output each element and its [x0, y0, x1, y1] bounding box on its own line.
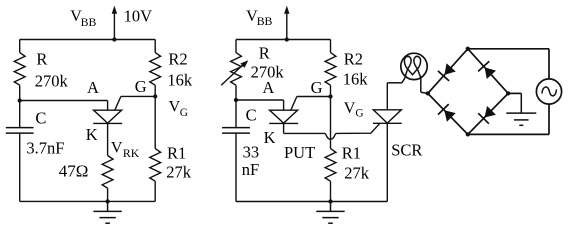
svg-text:33: 33 [243, 143, 260, 162]
svg-text:27k: 27k [344, 164, 370, 183]
svg-text:PUT: PUT [284, 143, 315, 162]
svg-text:R: R [259, 43, 270, 62]
svg-text:V: V [111, 139, 123, 156]
svg-text:K: K [86, 125, 98, 144]
svg-text:RK: RK [123, 146, 140, 160]
svg-text:V: V [344, 100, 356, 117]
svg-text:R2: R2 [168, 49, 187, 68]
svg-text:R2: R2 [344, 49, 363, 68]
svg-text:10V: 10V [124, 6, 153, 25]
svg-text:BB: BB [257, 14, 273, 28]
svg-text:16k: 16k [343, 70, 369, 89]
svg-text:16k: 16k [167, 70, 193, 89]
svg-text:SCR: SCR [391, 141, 422, 160]
svg-text:G: G [311, 78, 323, 97]
svg-text:47Ω: 47Ω [59, 162, 89, 181]
svg-text:V: V [169, 99, 181, 116]
svg-text:G: G [180, 107, 188, 119]
svg-text:K: K [264, 128, 276, 147]
svg-text:270k: 270k [35, 71, 69, 90]
svg-text:nF: nF [242, 160, 259, 179]
svg-text:R: R [36, 50, 47, 69]
svg-text:3.7nF: 3.7nF [26, 139, 64, 158]
svg-text:C: C [246, 106, 257, 125]
svg-text:R1: R1 [342, 144, 361, 163]
svg-text:R1: R1 [167, 144, 186, 163]
svg-text:A: A [262, 78, 274, 97]
svg-text:G: G [355, 108, 363, 120]
svg-text:27k: 27k [166, 163, 192, 182]
svg-text:A: A [87, 78, 99, 97]
svg-text:G: G [135, 77, 147, 96]
svg-text:C: C [35, 109, 46, 128]
svg-text:BB: BB [81, 15, 97, 29]
